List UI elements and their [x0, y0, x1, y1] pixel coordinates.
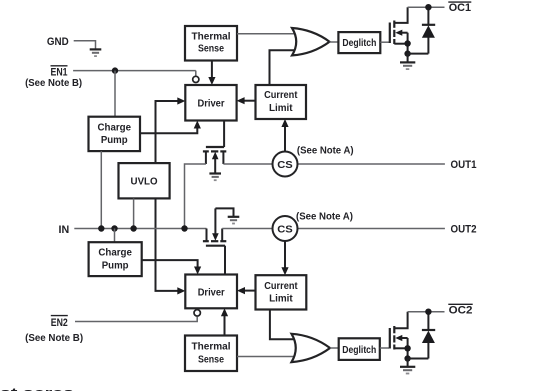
current sense CS2	[273, 216, 298, 241]
svg-text:(See Note B): (See Note B)	[25, 333, 83, 344]
label OUT2	[451, 224, 477, 236]
wire GND lead	[74, 41, 96, 50]
svg-text:Current: Current	[264, 90, 298, 101]
label EN2 (with overline)	[51, 316, 68, 329]
svg-text:Pump: Pump	[102, 260, 129, 271]
wire Driver 2 gate drive	[224, 246, 226, 275]
wire Thermal Sense 2 to OR gate 2	[237, 356, 298, 358]
junction EN1 / charge pump 1	[112, 67, 118, 73]
inverter bubble Driver 1 enable	[193, 76, 199, 82]
wire Charge Pump 2 to Driver 2 (arrow)	[142, 260, 202, 274]
label GND	[47, 36, 69, 48]
svg-text:Deglitch: Deglitch	[342, 345, 376, 356]
wire Q2 source to OUT1	[223, 163, 445, 165]
transistor Q3 (OC2 pull-down FET)	[390, 312, 408, 359]
svg-text:(See Note A): (See Note A)	[297, 145, 354, 156]
svg-text:OC2: OC2	[449, 304, 473, 316]
svg-text:st seres: st seres	[0, 385, 74, 391]
diode D2	[422, 312, 435, 359]
junction OC1 rail	[425, 4, 431, 10]
wire IN rail riser to Q2 drain	[185, 164, 206, 229]
block Driver 1	[185, 85, 236, 121]
svg-text:Thermal: Thermal	[192, 32, 231, 43]
svg-text:Sense: Sense	[198, 354, 224, 365]
junction Q3 diode anode	[404, 355, 410, 361]
svg-text:(See Note A): (See Note A)	[296, 211, 353, 222]
svg-text:Charge: Charge	[98, 248, 132, 259]
wire UVLO sense from IN rail	[133, 198, 135, 228]
svg-text:EN1: EN1	[51, 66, 68, 78]
label EN1 (with overline)	[51, 66, 68, 79]
wire Current Limit 1 to Driver 1 (arrow)	[237, 97, 256, 104]
wire Current Limit 2 to OR gate 2	[270, 310, 298, 340]
label OUT1	[451, 159, 477, 171]
block Thermal Sense 1	[185, 26, 237, 61]
wire Q4 source to OUT2	[222, 228, 445, 230]
block Charge Pump 1	[89, 117, 141, 151]
OR gate 2	[292, 334, 331, 362]
wire Current Limit 2 to Driver 2 (arrow)	[237, 287, 256, 294]
svg-text:Driver: Driver	[198, 99, 225, 110]
wire UVLO to Driver 2 (arrow)	[156, 198, 186, 294]
junction Q1 diode anode	[404, 50, 410, 56]
wire Deglitch 1 to Q1 gate	[380, 41, 389, 43]
ground GND	[90, 49, 102, 56]
ground Q3	[400, 359, 415, 374]
block Driver 2	[185, 275, 237, 309]
wire OC2 rail	[408, 311, 445, 313]
transistor Q4 (power MOSFET channel 2)	[203, 208, 234, 245]
transistor Q2 (power MOSFET channel 1)	[203, 147, 226, 173]
wire Current Limit 1 to OR gate 1	[270, 50, 299, 85]
svg-text:GND: GND	[47, 36, 69, 48]
svg-text:UVLO: UVLO	[131, 177, 158, 188]
junction OC2 rail	[425, 309, 431, 315]
junction IN / Q2 riser	[181, 225, 187, 231]
svg-text:OUT1: OUT1	[451, 159, 477, 171]
svg-text:Driver: Driver	[198, 287, 225, 298]
block Current Limit 1	[256, 85, 307, 119]
inverter bubble Driver 2 enable	[194, 310, 200, 316]
block Deglitch 1	[338, 32, 380, 53]
svg-text:Limit: Limit	[269, 294, 293, 305]
wire Deglitch 2 to Q3 gate	[380, 347, 389, 349]
block Thermal Sense 2	[185, 336, 237, 372]
cropped footer text fragment	[0, 385, 74, 391]
diode D1	[422, 7, 435, 53]
wire CS1 to Current Limit 1 (arrow)	[281, 119, 288, 152]
svg-text:Deglitch: Deglitch	[342, 38, 376, 49]
junction IN / charge pump 1	[98, 225, 104, 231]
label OC1 (with overline)	[448, 2, 471, 14]
wire UVLO to Driver 1 (arrow)	[156, 97, 186, 163]
svg-text:Pump: Pump	[101, 135, 128, 146]
wire Thermal Sense 2 to Driver 2 (arrow)	[221, 308, 228, 335]
svg-text:(See Note B): (See Note B)	[25, 78, 82, 89]
note See Note A (CS2)	[296, 211, 353, 222]
transistor Q1 (OC1 pull-down FET)	[390, 7, 408, 53]
ground Q1	[400, 54, 415, 70]
svg-text:IN: IN	[59, 224, 70, 236]
ground Q4 body	[228, 217, 240, 224]
svg-text:OUT2: OUT2	[451, 224, 477, 236]
block Charge Pump 2	[89, 242, 142, 276]
note See Note B (EN2)	[25, 333, 83, 344]
wire IN rail	[74, 228, 206, 230]
label IN	[59, 224, 70, 236]
junction IN / charge pump 2	[111, 225, 117, 231]
svg-text:Charge: Charge	[98, 122, 132, 133]
svg-text:Thermal: Thermal	[192, 342, 231, 353]
block UVLO	[119, 163, 170, 198]
block Current Limit 2	[256, 275, 307, 309]
wire OR gate 1 to Deglitch 1	[330, 41, 339, 43]
junction Q3 source/body	[404, 345, 410, 351]
wire CS2 to Current Limit 2 (arrow)	[281, 241, 288, 275]
note See Note B (EN1)	[25, 78, 82, 89]
svg-text:Sense: Sense	[198, 43, 224, 54]
wire EN2	[75, 317, 197, 322]
svg-text:Limit: Limit	[269, 103, 293, 114]
wire diode D2 anode	[408, 358, 429, 360]
wire Thermal Sense 1 to Driver 1 (arrow)	[208, 61, 215, 86]
svg-text:CS: CS	[277, 159, 293, 171]
wire Driver 1 gate drive	[223, 121, 225, 148]
wire OR gate 2 to Deglitch 2	[330, 347, 339, 349]
junction Q1 source/body	[404, 40, 410, 46]
label OC2 (with overline)	[448, 304, 472, 316]
wire EN1	[73, 71, 196, 77]
wire Thermal Sense 1 to OR gate 1	[237, 33, 298, 35]
wire OC1 rail	[408, 6, 445, 8]
current sense CS1	[273, 152, 298, 177]
svg-text:CS: CS	[277, 224, 293, 236]
wire Charge Pump 1 to IN rail	[100, 151, 102, 228]
ground Q2 body	[209, 174, 221, 181]
svg-text:EN2: EN2	[51, 317, 68, 329]
svg-text:Current: Current	[264, 281, 298, 292]
note See Note A (CS1)	[297, 145, 354, 156]
svg-text:OC1: OC1	[449, 2, 471, 14]
wire IN to Charge Pump 2	[114, 229, 116, 243]
block Deglitch 2	[339, 338, 380, 360]
OR gate 1	[292, 28, 330, 55]
wire diode D1 anode	[408, 53, 429, 55]
wire EN1 to Charge Pump 1	[114, 71, 116, 117]
junction IN / UVLO	[130, 225, 136, 231]
wire Charge Pump 1 to Driver 1 (arrow)	[140, 121, 201, 134]
